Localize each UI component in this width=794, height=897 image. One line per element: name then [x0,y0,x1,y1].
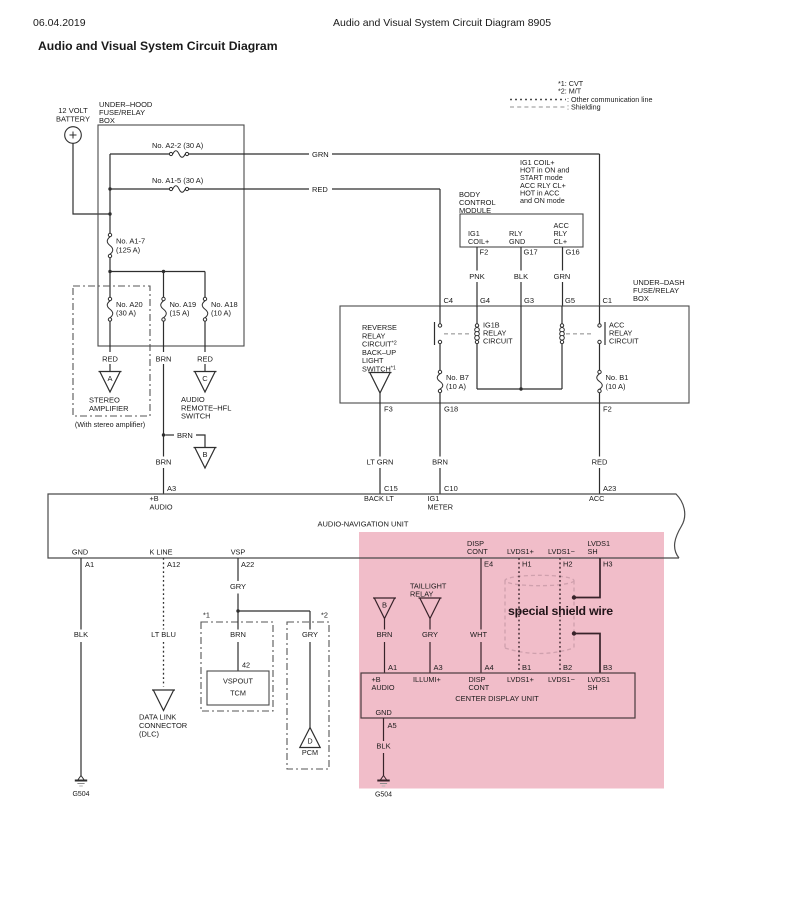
wire A19 out [163,346,165,352]
svg-text:(DLC): (DLC) [139,730,160,739]
svg-text:BLK: BLK [74,630,88,639]
svg-text:SWITCH: SWITCH [181,412,211,421]
wire RED drop to under-dash C4 [439,189,441,306]
svg-text:No. A1-5 (30 A): No. A1-5 (30 A) [152,176,204,185]
svg-text:and ON mode: and ON mode [520,196,565,205]
wire F2 down [599,403,601,457]
svg-text:GRY: GRY [422,630,438,639]
svg-text:G17: G17 [524,248,538,257]
connector taillight relay [419,597,442,599]
wire BRN branch to connector B [196,435,205,448]
wire PNK to G4 [476,282,478,306]
wire BLK to ground (CDU) [383,753,385,776]
svg-text:CIRCUIT: CIRCUIT [483,337,513,346]
node bus A1-5 junction [108,187,111,190]
svg-text:A23: A23 [603,484,616,493]
wire BRN to C10 [439,468,441,494]
svg-text:AMPLIFIER: AMPLIFIER [89,404,129,413]
connector A to stereo amplifier [99,371,122,373]
svg-text:VSPOUT: VSPOUT [223,677,254,686]
svg-text:BOX: BOX [99,116,115,125]
svg-text:F3: F3 [384,405,393,414]
fuse No. A1-7 (125 A) [107,237,113,254]
audio-navigation unit box [48,494,685,558]
svg-text:TCM: TCM [230,689,246,698]
svg-text:BRN: BRN [156,458,172,467]
wire fuse A1-5 to RED label [189,188,309,190]
svg-text:METER: METER [428,503,454,512]
wire A20 out [109,346,111,352]
svg-text:(10 A): (10 A) [606,382,627,391]
connector D to PCM [300,728,320,748]
wire GRN to C1 drop [332,153,600,155]
node battery junction [108,212,111,215]
fuse No. B7 (10 A) [437,374,443,389]
wire GRN drop to under-dash C1 [599,154,601,306]
wire G4 to coil [476,306,478,324]
wire main bus vertical lower [109,258,111,272]
node shield top connection [572,595,576,599]
svg-text:B: B [202,450,207,459]
svg-text:ILLUMI+: ILLUMI+ [413,675,441,684]
svg-text:BATTERY: BATTERY [56,115,90,124]
svg-text:H1: H1 [522,560,532,569]
wire bus to fuse A2-2 [110,153,169,155]
wire relay common horizontal [477,388,562,390]
svg-text:BRN: BRN [377,630,393,639]
fuse No. B1 (10 A) [597,374,603,389]
svg-text:A1: A1 [388,663,397,672]
svg-text:A22: A22 [241,560,254,569]
connector C to audio remote switch [194,371,217,373]
svg-text:06.04.2019: 06.04.2019 [33,17,86,29]
wire to fuse No. A20 [109,272,111,298]
svg-text:AUDIO: AUDIO [150,503,173,512]
svg-text:LVDS1+: LVDS1+ [507,547,534,556]
svg-text:C10: C10 [444,484,458,493]
wire RED to connector A [109,364,111,372]
svg-text:LVDS1+: LVDS1+ [507,675,534,684]
svg-text:CIRCUIT: CIRCUIT [609,337,639,346]
svg-text:RED: RED [197,355,213,364]
wire A18 out [204,346,206,352]
wire main bus vertical upper [109,154,111,233]
svg-text:A5: A5 [388,721,397,730]
highlight area center display circuit [359,532,664,789]
svg-text:BRN: BRN [230,630,246,639]
svg-text:Audio and Visual System Circui: Audio and Visual System Circuit Diagram [38,39,278,53]
connector B (pink) [373,597,396,599]
wire RED to A23 [599,468,601,494]
wire taillight down [429,619,431,630]
wire C4 into contact [439,306,441,324]
wire VSP branch down [309,611,311,630]
node shield bottom connection [572,631,576,635]
svg-text:G18: G18 [444,405,458,414]
svg-text:A3: A3 [167,484,176,493]
fuse No. A1-5 [173,186,185,193]
relay K1 link dashes [444,333,472,335]
wire VSP down segment [237,611,239,630]
svg-text:F2: F2 [603,405,612,414]
svg-text:No. B1: No. B1 [606,373,629,382]
wire F2 PNK upper [476,247,478,271]
svg-text:RED: RED [312,185,328,194]
svg-text:G5: G5 [565,296,575,305]
svg-text:K LINE: K LINE [149,548,172,557]
wire G5 to ACC coil [561,306,563,324]
svg-text:(15 A): (15 A) [170,309,191,318]
svg-text:F2: F2 [480,248,489,257]
node A19 branch junction [162,270,165,273]
svg-text:No. B7: No. B7 [446,373,469,382]
svg-text:A3: A3 [434,663,443,672]
svg-text:CONT: CONT [467,547,488,556]
fuse No. A19 (15 A) [161,301,167,318]
wire G3 to common [520,306,522,389]
svg-text:B3: B3 [603,663,612,672]
svg-text:H3: H3 [603,560,613,569]
svg-text:LVDS1−: LVDS1− [548,547,575,556]
svg-text:A4: A4 [485,663,494,672]
TCM box [207,671,269,705]
wire switch to F3 [379,393,381,403]
fuse No. A18 (10 A) [202,301,208,318]
svg-text:BRN: BRN [432,458,448,467]
wire LVDS1- dotted [559,558,561,673]
option box MT (PCM) [287,622,329,769]
wire ACC contact to fuse B1 [599,344,601,370]
svg-text:CONT: CONT [469,683,490,692]
svg-text:C1: C1 [603,296,613,305]
svg-text:GRN: GRN [554,272,571,281]
svg-text:C15: C15 [384,484,398,493]
relay K2 coil (ACC) [560,324,563,327]
svg-text:AUDIO-NAVIGATION UNIT: AUDIO-NAVIGATION UNIT [318,520,409,529]
wire GRY to connector D [309,642,311,728]
svg-text:BLK: BLK [514,272,528,281]
wire connector B down [384,619,386,630]
wire BRN branch to label [165,434,174,436]
legend shielding sample [510,106,566,108]
wire BLK to ground [80,642,82,776]
wire distribution horizontal [110,271,205,273]
svg-text:SH: SH [588,683,598,692]
connector to data link connector [152,689,175,691]
under-hood fuse/relay box [98,125,244,346]
option box with stereo amplifier [73,286,150,416]
svg-text:42: 42 [242,661,250,670]
wire GND upper [80,558,82,630]
wire BRN down to junction [163,364,165,457]
svg-text:A1: A1 [85,560,94,569]
svg-text:B1: B1 [522,663,531,672]
svg-text:RED: RED [102,355,118,364]
wire GRY to A3 [429,642,431,673]
svg-text:GND: GND [72,548,88,557]
wire F3 down [379,403,381,457]
wire CDU GND upper [383,718,385,741]
wire LVDS1 SH upper [576,558,601,598]
node relay common junction [519,387,522,390]
center display unit box [361,673,635,718]
fuse No. A20 (30 A) [107,301,113,318]
svg-text:ACC: ACC [589,494,604,503]
wire LVDS1 SH lower [576,634,601,674]
svg-text:*1: *1 [203,611,210,620]
svg-text:WHT: WHT [470,630,487,639]
wire fuse No. A20 to box edge [109,321,111,346]
relay K1 contact (IG1B) [434,322,436,345]
fuse No. A2-2 [173,151,185,158]
node bus distribution junction [108,270,111,273]
wire to fuse No. A18 [204,272,206,298]
wire LT BLU dotted lower [163,642,165,687]
svg-text:COIL+: COIL+ [468,237,489,246]
wire bus to fuse A1-5 [110,188,169,190]
wire VSP upper [237,558,239,581]
svg-text:LT BLU: LT BLU [151,630,176,639]
svg-text:C4: C4 [444,296,454,305]
svg-text:GND: GND [376,708,392,717]
wire C1 into ACC contact [599,306,601,324]
svg-text:: Shielding: : Shielding [567,103,601,112]
svg-text:Audio and Visual System Circui: Audio and Visual System Circuit Diagram … [333,17,551,29]
svg-text:GRY: GRY [302,630,318,639]
wire battery to under-hood bus [73,143,109,214]
svg-text:PNK: PNK [469,272,484,281]
svg-text:GRY: GRY [230,582,246,591]
svg-text:G4: G4 [480,296,490,305]
connector reverse relay switch [369,372,392,374]
svg-text:No. A2-2 (30 A): No. A2-2 (30 A) [152,141,204,150]
svg-text:LT GRN: LT GRN [367,458,394,467]
svg-text:C: C [202,374,208,383]
wire LVDS1+ dotted [518,558,520,673]
wire fuse No. A18 to box edge [204,321,206,346]
svg-text:G504: G504 [72,791,89,798]
svg-text:GND: GND [509,237,525,246]
svg-text:H2: H2 [563,560,573,569]
wire coil to common [476,344,478,389]
wire fuse A2-2 to GRN label [189,153,309,155]
wire K LINE dotted upper [163,558,165,630]
wire fuse B7 to G18 [439,393,441,403]
svg-text:(With stereo amplifier): (With stereo amplifier) [75,420,145,429]
wire LT GRN to C15 [379,468,381,494]
svg-text:(125 A): (125 A) [116,246,141,255]
wire RED to C4 drop [332,188,440,190]
svg-text:BACK LT: BACK LT [364,494,394,503]
relay K1 coil (IG1B) [475,324,478,327]
connector B [194,447,217,449]
svg-text:LVDS1−: LVDS1− [548,675,575,684]
node BRN branch junction [162,433,165,436]
wire GRY to junction [237,594,239,612]
relay K2 contact (ACC) [604,322,606,345]
svg-text:B2: B2 [563,663,572,672]
wire G18 down [439,403,441,457]
node VSP junction [236,609,239,612]
option box CVT (TCM) [201,622,273,711]
wire BRN to TCM [237,642,239,671]
wire fuse B1 to F2 [599,393,601,403]
relay K2 link dashes [566,333,594,335]
svg-text:RELAY: RELAY [410,590,434,599]
wire WHT to A4 [480,642,482,673]
svg-text:A: A [107,374,112,383]
ground G504 left [78,776,84,781]
svg-text:(10 A): (10 A) [446,382,467,391]
svg-text:B: B [382,601,387,610]
wire G17 BLK upper [520,247,522,271]
svg-text:D: D [307,737,312,746]
wire to fuse No. A19 [163,272,165,298]
svg-text:RED: RED [592,458,608,467]
svg-text:BRN: BRN [177,431,193,440]
shield cylinder (special shield wire) [505,575,574,585]
wire BRN to audio-navigation unit [163,468,165,494]
svg-text:BRN: BRN [156,355,172,364]
wire fuse No. A19 to box edge [163,321,165,346]
svg-text:BLK: BLK [376,742,390,751]
svg-text:G504: G504 [375,792,392,799]
svg-text:No. A1-7: No. A1-7 [116,237,145,246]
wire common to ACC coil [561,344,563,389]
svg-text:*2: *2 [321,611,328,620]
legend other communication line sample [510,99,566,101]
svg-text:CENTER DISPLAY UNIT: CENTER DISPLAY UNIT [455,694,539,703]
wire DISP CONT upper [480,558,482,630]
body control module box U1 [460,214,583,247]
svg-text:(10 A): (10 A) [211,309,232,318]
svg-text:AUDIO: AUDIO [372,683,395,692]
svg-text:G3: G3 [524,296,534,305]
wire contact to fuse B7 [439,344,441,370]
wire VSP branch horizontal [238,610,310,612]
svg-text:BOX: BOX [633,294,649,303]
wire G16 GRN upper [562,247,564,271]
ground G504 right [380,776,386,781]
svg-text:E4: E4 [484,560,493,569]
svg-text:G16: G16 [566,248,580,257]
wire RED to connector C [204,364,206,372]
wire BLK to G3 [520,282,522,306]
svg-text:CL+: CL+ [554,237,568,246]
svg-text:(30 A): (30 A) [116,309,137,318]
svg-text:PCM: PCM [302,748,318,757]
under-dash fuse/relay box [340,306,689,403]
battery BATT symbol [65,127,82,144]
svg-text:A12: A12 [167,560,180,569]
wire BRN to A1 [384,642,386,673]
svg-text:VSP: VSP [231,548,246,557]
wire GRN to G5 [562,282,564,306]
svg-text:GRN: GRN [312,150,329,159]
svg-text:SH: SH [588,547,598,556]
